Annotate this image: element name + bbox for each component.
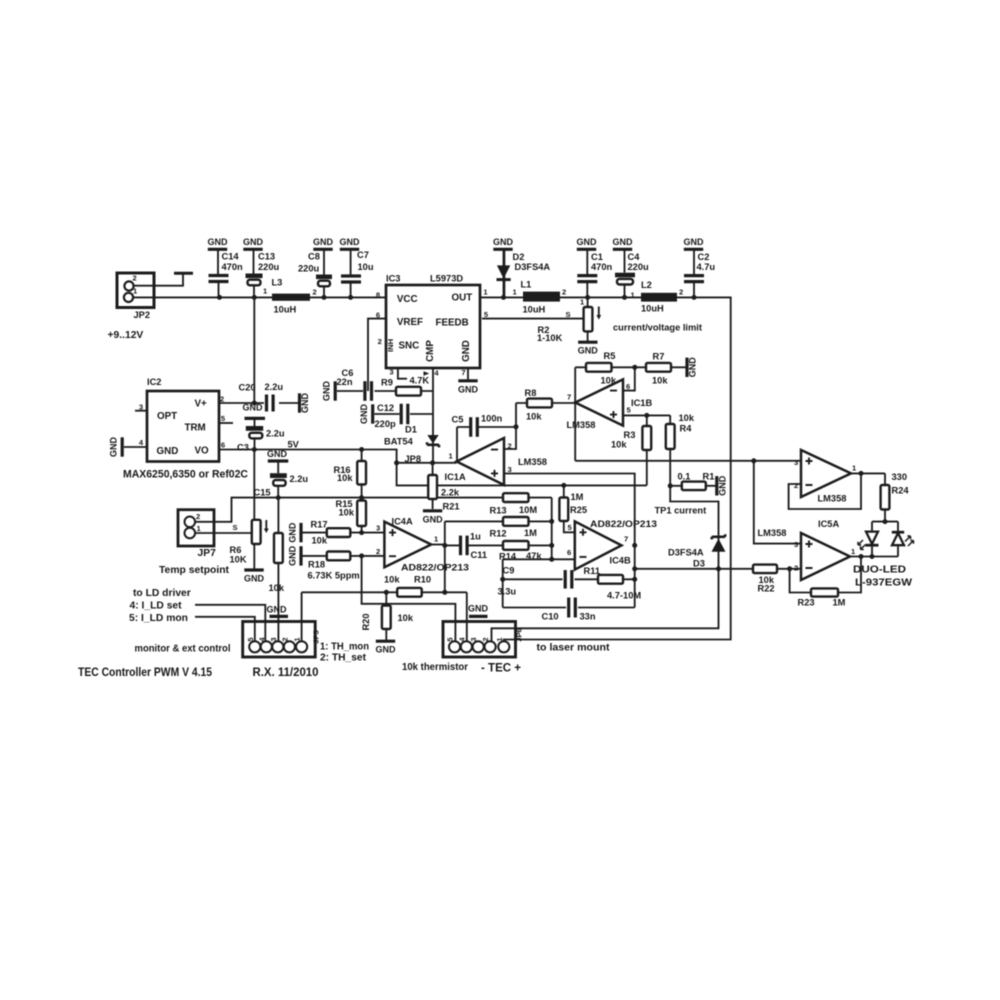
capacitor C20 2.2u — [239, 382, 284, 412]
svg-text:VO: VO — [195, 446, 210, 457]
wire TH_set run to connector pin5 — [362, 556, 456, 642]
svg-text:GND: GND — [376, 645, 397, 655]
svg-text:1M: 1M — [571, 492, 584, 502]
wire reference rail to IC5 inputs — [575, 461, 801, 544]
resistor R20 10k — [361, 606, 414, 631]
resistor R4 10k — [666, 413, 695, 449]
wire C10 row — [503, 607, 635, 609]
ground GND at C7 — [340, 237, 361, 276]
svg-text:R18: R18 — [308, 560, 325, 570]
svg-text:C9: C9 — [503, 566, 515, 576]
junction — [394, 460, 399, 465]
op-amp IC5B LM358 — [794, 450, 857, 529]
wire R2 top stem — [587, 297, 589, 341]
wire IC1A output to JP8 node — [433, 462, 457, 464]
capacitor C13 220u — [246, 252, 280, 298]
wire IC3 CMP column through D1 — [432, 366, 434, 463]
svg-text:GND: GND — [423, 514, 444, 524]
capacitor C9 3.3u — [498, 566, 574, 597]
wire IC3 pin3 stub — [398, 367, 407, 379]
resistor R13 10M — [490, 493, 538, 515]
svg-text:D3FS4A: D3FS4A — [515, 262, 551, 272]
wire IC2 VO to C3 node — [219, 449, 254, 451]
wire IC3 VREF jog to C6/R9 row — [368, 319, 386, 391]
svg-text:2: 2 — [196, 512, 200, 521]
svg-text:3: 3 — [794, 458, 798, 467]
resistor R17 10k — [311, 520, 351, 546]
wire LED2 stems — [897, 522, 899, 557]
op-amp IC4A AD822 — [376, 517, 469, 573]
svg-text:C12: C12 — [377, 403, 394, 413]
svg-text:GND: GND — [267, 449, 288, 459]
capacitor C14 470n — [209, 252, 244, 298]
svg-text:8: 8 — [376, 291, 380, 300]
junction — [585, 295, 590, 300]
svg-text:GND: GND — [288, 522, 298, 543]
svg-text:Temp setpoint: Temp setpoint — [159, 565, 230, 576]
svg-text:220p: 220p — [375, 419, 397, 429]
svg-text:D1: D1 — [405, 425, 417, 435]
ground GND at R18 — [288, 545, 302, 566]
svg-text:2: 2 — [562, 288, 566, 297]
ground GND at R6 — [244, 570, 265, 584]
svg-text:10k: 10k — [312, 536, 328, 546]
svg-text:INH: INH — [386, 339, 395, 352]
label monitor ext control — [135, 644, 231, 655]
svg-text:D2: D2 — [513, 252, 525, 262]
svg-text:R1: R1 — [703, 472, 715, 482]
ground GND at R1 — [717, 475, 728, 496]
svg-text:2.2k: 2.2k — [441, 488, 460, 498]
svg-text:1-10K: 1-10K — [537, 333, 563, 343]
capacitor C15 2.2u with ground — [254, 449, 309, 498]
capacitor C1 470n — [577, 252, 612, 297]
svg-text:R22: R22 — [758, 584, 775, 594]
wire TP1 current loop through D3 to laser connector — [492, 486, 719, 642]
capacitor C5 100n — [452, 414, 503, 437]
svg-text:5: I_LD mon: 5: I_LD mon — [129, 613, 188, 624]
svg-text:2.2u: 2.2u — [266, 429, 285, 439]
svg-text:R21: R21 — [443, 502, 460, 512]
svg-text:10k: 10k — [611, 440, 627, 450]
junction — [430, 460, 435, 465]
diode D2 D3FS4A — [493, 237, 550, 298]
svg-text:10u: 10u — [358, 262, 374, 272]
svg-text:10M: 10M — [519, 505, 537, 515]
ground GND at R21 — [423, 511, 444, 525]
svg-text:R13: R13 — [490, 506, 507, 516]
svg-text:C3: C3 — [237, 443, 249, 453]
svg-text:IC1A: IC1A — [445, 472, 466, 482]
svg-text:R17: R17 — [311, 520, 328, 530]
svg-text:3: 3 — [508, 465, 512, 474]
svg-text:4.7-10M: 4.7-10M — [607, 591, 641, 601]
svg-text:C2: C2 — [698, 252, 710, 262]
connector JP6 thermistor TEC — [443, 622, 524, 658]
ground GND at C20 — [300, 393, 311, 414]
svg-text:GND: GND — [613, 237, 634, 247]
svg-text:2: 2 — [794, 564, 798, 573]
svg-text:VREF: VREF — [397, 317, 423, 328]
resistor R10 10k — [384, 575, 431, 597]
junction — [622, 295, 627, 300]
svg-text:7: 7 — [461, 368, 465, 377]
svg-text:10k: 10k — [652, 376, 668, 386]
svg-text:GND: GND — [578, 346, 599, 356]
svg-text:R10: R10 — [414, 575, 431, 585]
junction — [859, 471, 864, 476]
inductor L2 10uH — [631, 280, 684, 314]
connector JP5 monitor — [243, 622, 321, 658]
wire D2 stem — [503, 251, 505, 298]
svg-text:1u: 1u — [470, 532, 481, 542]
wire IC4A pin2 row — [301, 555, 384, 557]
junction — [359, 530, 364, 535]
ground GND at R2 — [578, 342, 599, 356]
svg-text:GND: GND — [577, 237, 598, 247]
wire setpoint rail from JP7 pin2 to R13 — [195, 498, 552, 522]
wire IC2 pin4 GND — [124, 446, 147, 448]
junction — [500, 577, 505, 582]
potentiometer R6 10K — [230, 520, 269, 565]
svg-text:GND: GND — [243, 403, 264, 413]
svg-text:IC5A: IC5A — [818, 519, 839, 529]
wire JP5 GND column through 10k — [277, 498, 279, 642]
svg-text:1: TH_mon: 1: TH_mon — [320, 642, 369, 653]
wire R3 column — [646, 415, 648, 485]
wire JP7 wiper to R6 — [195, 532, 252, 534]
wire LED top node — [872, 521, 898, 523]
wire IC3 FEEDB to R2 wiper — [482, 318, 584, 320]
wire IC5B feedback loop — [789, 473, 861, 509]
svg-text:TP1 current: TP1 current — [655, 506, 707, 516]
resistor R21 2.2k — [428, 475, 460, 512]
resistor R5 10k — [586, 351, 617, 386]
ground GND at C8 — [313, 237, 334, 275]
junction — [632, 365, 637, 370]
svg-text:220u: 220u — [258, 262, 280, 272]
svg-text:6: 6 — [376, 311, 380, 320]
wire R12 row from IC4A output — [445, 520, 552, 522]
junction — [276, 495, 281, 500]
junction — [632, 566, 637, 571]
junction — [359, 495, 364, 500]
wire IC4A pin3 row — [301, 532, 384, 534]
svg-text:2: 2 — [794, 481, 798, 490]
svg-text:IC2: IC2 — [147, 377, 161, 387]
wire R8 row — [516, 402, 575, 404]
svg-text:10uH: 10uH — [274, 305, 297, 315]
svg-text:10k: 10k — [526, 412, 542, 422]
svg-text:GND: GND — [243, 237, 264, 247]
wire LD driver line 5 — [195, 617, 255, 642]
junction — [322, 295, 327, 300]
IC U IC2 MAX6250 — [123, 377, 248, 481]
svg-text:GND: GND — [684, 237, 705, 247]
svg-text:GND: GND — [322, 381, 332, 402]
svg-text:2: 2 — [376, 547, 380, 556]
wire IC1A pin3 long rail to IC4B output column — [504, 474, 635, 608]
svg-text:monitor & ext control: monitor & ext control — [135, 644, 231, 655]
svg-text:- TEC +: - TEC + — [481, 661, 521, 675]
svg-text:+9..12V: +9..12V — [108, 330, 144, 341]
wire key stub at JP2 pin2 — [134, 275, 183, 286]
svg-text:GND: GND — [109, 437, 119, 458]
junction — [348, 295, 353, 300]
svg-text:100n: 100n — [481, 414, 503, 424]
svg-text:GND: GND — [288, 545, 298, 566]
wire IC4B pin6 row — [503, 558, 575, 560]
junction — [859, 554, 864, 559]
svg-text:4.7u: 4.7u — [697, 262, 716, 272]
svg-text:OPT: OPT — [157, 411, 177, 422]
ground GND at R17 — [288, 522, 302, 543]
svg-text:10k thermistor: 10k thermistor — [402, 662, 468, 673]
junction — [501, 295, 506, 300]
svg-text:47k: 47k — [526, 551, 542, 561]
svg-text:R25: R25 — [570, 505, 587, 515]
svg-text:6: 6 — [567, 548, 571, 557]
wire R15 R16 column — [361, 450, 363, 533]
svg-text:current/voltage limit: current/voltage limit — [613, 323, 702, 333]
junction — [644, 413, 649, 418]
ground GND at C14 — [208, 237, 229, 275]
svg-text:IC4A: IC4A — [392, 517, 413, 527]
svg-text:GND: GND — [313, 237, 334, 247]
junction — [716, 566, 721, 571]
capacitor C11 1u — [459, 532, 487, 561]
svg-text:IC1B: IC1B — [631, 398, 652, 408]
svg-text:2: 2 — [679, 288, 683, 297]
svg-text:3: 3 — [269, 637, 278, 641]
junction — [359, 553, 364, 558]
connector JP2 — [108, 273, 155, 341]
svg-text:S: S — [566, 310, 571, 319]
junction — [561, 483, 566, 488]
svg-text:C14: C14 — [222, 252, 240, 262]
wire raw supply drop to IC2 V+ — [253, 297, 255, 403]
resistor R11 4.7-10M — [584, 566, 642, 601]
svg-text:C11: C11 — [471, 550, 488, 560]
svg-text:BAT54: BAT54 — [384, 437, 414, 447]
svg-text:JP7: JP7 — [198, 548, 217, 559]
svg-text:LM358: LM358 — [518, 457, 547, 467]
wire R20 stem — [385, 592, 387, 640]
wire thermistor pin4 drop — [466, 592, 468, 642]
svg-text:2: 2 — [313, 288, 317, 297]
svg-text:0.1: 0.1 — [678, 472, 691, 482]
svg-text:R.X. 11/2010: R.X. 11/2010 — [253, 665, 319, 679]
svg-text:10k: 10k — [337, 473, 353, 483]
svg-text:2: 2 — [508, 442, 512, 451]
junction — [632, 577, 637, 582]
svg-text:CMP: CMP — [425, 340, 436, 362]
wire JP5 pin1 drop — [301, 592, 303, 642]
svg-text:4: I_LD set: 4: I_LD set — [130, 601, 183, 612]
svg-text:6: 6 — [221, 441, 225, 450]
ground GND at C4 — [613, 237, 634, 273]
wire R22 row to IC5A pin2 — [635, 568, 801, 570]
ground GND at IC3 pin7 — [458, 368, 479, 394]
svg-text:2: 2 — [481, 637, 490, 641]
ground GND at C13 — [243, 237, 264, 274]
label title TEC Controller PWM V4.15 — [78, 665, 212, 679]
potentiometer R2 1-10K — [537, 298, 601, 344]
junction — [384, 590, 389, 595]
svg-text:GND: GND — [267, 605, 288, 615]
wire setpoint column C3 to pot R6 — [253, 450, 255, 570]
svg-text:C8: C8 — [308, 252, 320, 262]
label DUO-LED L-937EGW — [853, 565, 912, 589]
wire R13 R12 R14 right bus to IC4B pin6 — [551, 498, 553, 560]
svg-text:L1: L1 — [521, 280, 532, 290]
junction — [442, 590, 447, 595]
svg-text:GND: GND — [493, 237, 514, 247]
svg-text:R5: R5 — [604, 351, 616, 361]
svg-text:1M: 1M — [833, 598, 846, 608]
wire LED1 stems — [871, 522, 873, 557]
junction — [692, 295, 697, 300]
svg-text:V+: V+ — [195, 399, 208, 410]
capacitor C3 2.2u with ground — [237, 403, 300, 453]
label JP8 — [405, 454, 422, 464]
svg-text:470n: 470n — [222, 262, 244, 272]
wire R10 row — [302, 591, 467, 593]
svg-text:IC3: IC3 — [386, 274, 400, 284]
net label current voltage limit — [613, 323, 702, 333]
junction — [751, 458, 756, 463]
junction — [442, 543, 447, 548]
svg-text:AD822/OP213: AD822/OP213 — [401, 563, 469, 573]
wire C5 feedback loop — [457, 403, 516, 462]
svg-text:330: 330 — [892, 472, 908, 482]
svg-text:LM358: LM358 — [758, 528, 787, 538]
svg-text:C5: C5 — [452, 415, 464, 425]
label TP1 current — [655, 506, 707, 516]
resistor R16 10k — [334, 461, 367, 485]
wire IC5B output — [851, 472, 885, 474]
svg-text:L3: L3 — [272, 278, 283, 288]
junction — [632, 543, 637, 548]
svg-text:R11: R11 — [584, 566, 601, 576]
svg-text:2.2u: 2.2u — [265, 382, 284, 392]
ground GND at JP6 pin3 — [468, 604, 489, 617]
LED1 of DUO-LED — [858, 532, 879, 550]
wire IC2 pin5 stub — [219, 422, 233, 424]
svg-text:D3FS4A: D3FS4A — [668, 548, 704, 558]
ground GND at IC2 pin4 — [109, 437, 123, 458]
svg-text:L2: L2 — [641, 280, 652, 290]
ground GND at C1 — [577, 237, 598, 275]
svg-text:10k: 10k — [679, 413, 695, 423]
op-amp IC5A LM358 — [758, 528, 857, 580]
wire R5 loop to IC1B output — [574, 367, 576, 402]
svg-text:R23: R23 — [798, 598, 815, 608]
wire IC2 V+ row through C20 — [219, 402, 298, 404]
junction — [252, 295, 257, 300]
diode D1 BAT54 — [384, 425, 439, 448]
resistor R7 10k — [646, 352, 671, 386]
svg-text:5V: 5V — [288, 440, 300, 450]
junction — [217, 295, 222, 300]
wire C11 R14 row — [445, 544, 552, 546]
svg-text:MAX6250,6350 or Ref02C: MAX6250,6350 or Ref02C — [123, 469, 248, 481]
wire IC1B output drop — [574, 403, 576, 461]
ground GND at R20 — [376, 641, 397, 655]
wire R4 column — [669, 415, 671, 485]
svg-text:R7: R7 — [653, 352, 665, 362]
wire C6 row — [337, 390, 433, 392]
svg-text:1M: 1M — [524, 528, 537, 538]
svg-text:R8: R8 — [525, 388, 537, 398]
svg-text:IC4B: IC4B — [610, 556, 631, 566]
svg-text:to laser mount: to laser mount — [537, 643, 611, 654]
capacitor C12 220p — [359, 403, 409, 429]
svg-text:D3: D3 — [693, 559, 705, 569]
svg-text:3: 3 — [376, 524, 380, 533]
svg-text:22n: 22n — [337, 377, 353, 387]
wire R1 row — [670, 485, 716, 487]
wire main +9..12V rail and TEC+ loop — [134, 297, 731, 642]
svg-text:2: TH_set: 2: TH_set — [320, 653, 367, 664]
svg-text:C15: C15 — [254, 488, 271, 498]
capacitor C4 220u — [615, 252, 649, 297]
svg-text:GND: GND — [208, 237, 229, 247]
svg-text:2: 2 — [220, 395, 224, 404]
LED2 of DUO-LED — [892, 532, 914, 546]
svg-text:GND: GND — [688, 357, 698, 378]
svg-text:10k: 10k — [384, 575, 400, 585]
wire R24 column — [884, 473, 886, 521]
svg-text:3: 3 — [389, 368, 393, 377]
svg-text:TEC Controller PWM V 4.15: TEC Controller PWM V 4.15 — [78, 665, 212, 679]
svg-text:2: 2 — [280, 637, 289, 641]
wire IC4A output — [431, 544, 445, 546]
diode D3 D3FS4A — [668, 534, 726, 568]
resistor R23 1M — [798, 588, 846, 607]
wire IC2 pin3 stub — [135, 410, 147, 412]
label to LD driver — [129, 588, 191, 624]
svg-text:7: 7 — [567, 393, 571, 402]
op-amp IC1B LM358 — [567, 379, 653, 430]
svg-text:10k: 10k — [269, 583, 285, 593]
svg-text:GND: GND — [468, 604, 489, 614]
svg-text:3.3u: 3.3u — [498, 587, 517, 597]
svg-text:C1: C1 — [591, 252, 603, 262]
capacitor C6 22n — [322, 368, 373, 401]
node key bar — [174, 272, 193, 275]
svg-text:GND: GND — [244, 574, 265, 584]
svg-text:AD822/OP213: AD822/OP213 — [590, 519, 657, 529]
svg-text:SNC: SNC — [399, 341, 420, 352]
svg-text:33n: 33n — [580, 612, 596, 622]
svg-text:10k: 10k — [398, 613, 414, 623]
svg-text:10uH: 10uH — [641, 304, 664, 314]
label TEC polarity — [481, 661, 521, 675]
wire LD driver line 4 — [195, 605, 265, 642]
svg-text:R14: R14 — [499, 552, 517, 562]
wire IC1B pin6 — [623, 367, 635, 390]
svg-text:C20: C20 — [239, 383, 256, 393]
svg-text:R24: R24 — [892, 486, 910, 496]
resistor R8 10k — [525, 388, 553, 422]
svg-text:470n: 470n — [591, 262, 613, 272]
wire R23 feedback loop — [790, 557, 861, 593]
wire R5 R7 row — [575, 366, 687, 368]
label to laser mount — [537, 643, 611, 654]
junction — [252, 447, 257, 452]
junction — [668, 483, 673, 488]
